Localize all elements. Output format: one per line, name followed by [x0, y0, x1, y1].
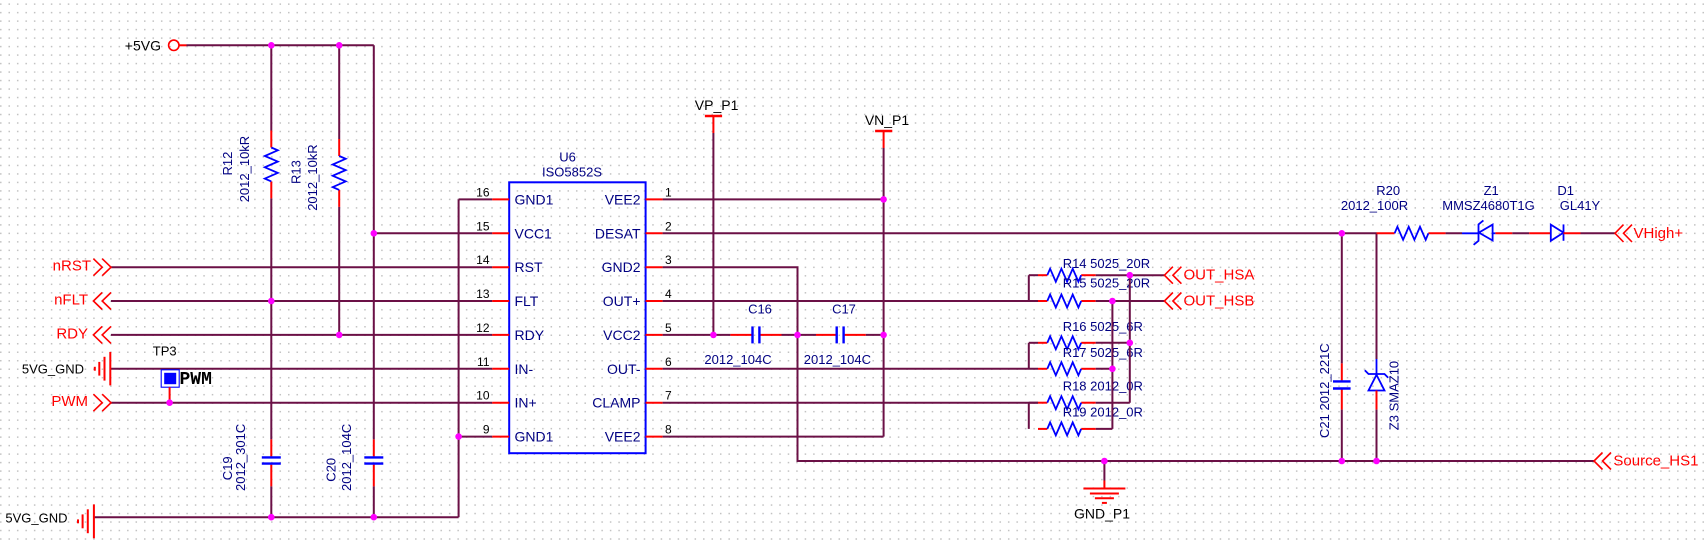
svg-text:2012_301C: 2012_301C	[233, 424, 248, 491]
U6 pin names left	[515, 191, 554, 444]
svg-text:CLAMP: CLAMP	[592, 395, 640, 411]
svg-text:IN+: IN+	[515, 395, 537, 411]
wire R20 to Z1	[1446, 232, 1462, 234]
junction rail C21	[1339, 458, 1346, 465]
testpoint TP3	[153, 344, 212, 403]
svg-text:OUT_HSB: OUT_HSB	[1184, 293, 1255, 310]
svg-text:R16 5025_6R: R16 5025_6R	[1063, 319, 1143, 334]
svg-text:PWM: PWM	[180, 370, 212, 390]
diode D1 GL41Y	[1529, 183, 1600, 241]
junction bottom rail C19	[268, 514, 275, 521]
svg-text:11: 11	[477, 355, 490, 369]
svg-text:9: 9	[483, 423, 490, 437]
wire pin7 CLAMP row	[663, 402, 1038, 404]
wire vertical OUT_HSB net	[1111, 301, 1113, 429]
svg-text:OUT+: OUT+	[603, 293, 641, 309]
svg-text:VEE2: VEE2	[605, 191, 641, 207]
svg-text:C21 2012_221C: C21 2012_221C	[1317, 343, 1332, 438]
svg-text:2012_10kR: 2012_10kR	[305, 144, 320, 211]
port Source_HS1	[1594, 453, 1698, 470]
resistor R19 2012_0R	[1038, 405, 1143, 436]
port nRST	[53, 258, 111, 276]
svg-text:R20: R20	[1376, 183, 1400, 198]
wire nRST to pin14	[111, 266, 492, 268]
resistor R14 5025_20R	[1029, 256, 1150, 282]
capacitor C16 2012_104C	[704, 302, 781, 368]
svg-text:TP3: TP3	[153, 344, 177, 359]
wire pin3 GND2 to ground rail	[663, 267, 1594, 461]
svg-text:GND1: GND1	[515, 429, 554, 445]
svg-text:3: 3	[665, 253, 672, 267]
resistor R13 2012_10kR	[289, 139, 346, 211]
wire pin9 GND1	[459, 436, 493, 438]
power port VP_P1	[695, 97, 739, 133]
port nFLT	[54, 292, 111, 310]
wire pin15 VCC1	[374, 232, 492, 234]
wire R13 column top	[338, 45, 340, 139]
svg-text:6: 6	[665, 355, 672, 369]
wire R12 column top	[270, 45, 272, 130]
svg-text:5VG_GND: 5VG_GND	[5, 510, 67, 525]
svg-text:VN_P1: VN_P1	[865, 112, 910, 128]
svg-text:5VG_GND: 5VG_GND	[22, 362, 84, 377]
wire VP column	[712, 133, 714, 335]
svg-text:Z1: Z1	[1484, 183, 1499, 198]
power port VN_P1	[865, 112, 910, 148]
wire bottom 5VG_GND rail	[94, 516, 459, 518]
svg-text:10: 10	[476, 389, 490, 403]
wire 5VG_GND to pin11	[110, 368, 492, 370]
svg-text:C17: C17	[832, 302, 856, 317]
junction GND2 VCC2 row	[794, 332, 801, 339]
wire OUT_HSA row	[1096, 274, 1165, 276]
svg-text:5: 5	[665, 321, 672, 335]
svg-text:D1: D1	[1557, 183, 1574, 198]
svg-text:MMSZ4680T1G: MMSZ4680T1G	[1442, 198, 1534, 213]
svg-text:DESAT: DESAT	[595, 225, 641, 241]
svg-text:VEE2: VEE2	[605, 429, 641, 445]
junction rail GND_P1	[1101, 458, 1108, 465]
svg-text:C16: C16	[748, 302, 772, 317]
svg-text:OUT-: OUT-	[607, 361, 641, 377]
wire R17 row right	[1096, 368, 1113, 370]
wire pin4 OUT+ row	[663, 300, 1038, 302]
junction OUT_HSA	[1127, 272, 1134, 279]
junction PWM TP3	[166, 399, 173, 406]
svg-text:12: 12	[476, 321, 490, 335]
port RDY	[56, 325, 111, 343]
op-amp U6 ISO5852S body	[509, 150, 645, 454]
svg-text:RST: RST	[515, 259, 543, 275]
wire R19 row right	[1096, 428, 1113, 430]
svg-text:4: 4	[665, 287, 672, 301]
wire R16/R17 left bar	[1028, 343, 1030, 369]
wire D1 to VHigh+ port	[1581, 232, 1616, 234]
junction VP VCC2	[710, 332, 717, 339]
svg-text:2: 2	[665, 219, 672, 233]
svg-text:R15 5025_20R: R15 5025_20R	[1063, 276, 1150, 291]
svg-text:1: 1	[665, 185, 672, 199]
zener Z3 SMAZ10	[1365, 233, 1402, 461]
wire RDY to pin12	[111, 334, 492, 336]
svg-text:VCC1: VCC1	[515, 225, 553, 241]
svg-text:R18 2012_0R: R18 2012_0R	[1063, 378, 1143, 393]
U6 left pin stubs	[492, 199, 509, 436]
port VHigh+	[1615, 225, 1683, 242]
resistor R16 5025_6R	[1029, 319, 1143, 350]
svg-text:OUT_HSA: OUT_HSA	[1184, 267, 1255, 284]
wire pin16 GND1	[459, 198, 493, 200]
ground GND_P1	[1074, 461, 1130, 522]
wire VCC1 column x374	[373, 45, 375, 517]
wire R16 row right	[1096, 342, 1130, 344]
wire pin6 OUT- row	[663, 368, 1038, 370]
resistor R18 2012_0R	[1029, 378, 1143, 409]
junction VCC1 column	[371, 230, 378, 237]
svg-text:U6: U6	[559, 150, 576, 165]
wire PWM to pin10	[111, 402, 492, 404]
power ground 5VG_GND (pin11)	[22, 352, 110, 386]
wire VN column	[883, 148, 885, 437]
junction DESAT C21	[1339, 230, 1346, 237]
svg-text:Z3 SMAZ10: Z3 SMAZ10	[1387, 361, 1402, 430]
svg-text:13: 13	[476, 287, 490, 301]
junction nFLT R12	[268, 298, 275, 305]
junction VN pin1	[880, 196, 887, 203]
junction rail Z3	[1373, 458, 1380, 465]
svg-text:IN-: IN-	[515, 361, 534, 377]
zener Z1 MMSZ4680T1G	[1442, 183, 1534, 245]
svg-text:GND2: GND2	[602, 259, 641, 275]
svg-text:R14 5025_20R: R14 5025_20R	[1063, 256, 1150, 271]
wire R18 row right	[1096, 402, 1130, 404]
port OUT_HSA	[1164, 267, 1254, 284]
capacitor C19 2012_301C	[220, 424, 281, 491]
svg-text:15: 15	[476, 219, 490, 233]
wire pin8 VEE2 to VN column	[663, 436, 884, 438]
svg-text:C20: C20	[323, 458, 338, 482]
svg-text:FLT: FLT	[515, 293, 539, 309]
junction top rail R13	[336, 42, 343, 49]
svg-text:2012_104C: 2012_104C	[339, 424, 354, 491]
port OUT_HSB	[1164, 293, 1254, 310]
capacitor C17 2012_104C	[804, 302, 871, 368]
svg-text:VCC2: VCC2	[603, 327, 641, 343]
svg-text:GND_P1: GND_P1	[1074, 506, 1130, 522]
svg-text:R13: R13	[289, 160, 304, 184]
svg-text:2012_104C: 2012_104C	[704, 352, 771, 367]
wire R14/R15 left bar	[1028, 275, 1030, 301]
junction bottom rail C20	[371, 514, 378, 521]
svg-text:14: 14	[476, 253, 490, 267]
svg-text:GND1: GND1	[515, 191, 554, 207]
wire pin1 VEE2 to VN column	[663, 198, 884, 200]
port PWM	[51, 393, 111, 411]
junction RDY R13	[336, 332, 343, 339]
junction pin9 column	[455, 433, 462, 440]
U6 right pin stubs	[646, 199, 663, 436]
svg-text:R19 2012_0R: R19 2012_0R	[1063, 405, 1143, 420]
U6 pin numbers right	[665, 185, 672, 436]
wire pin5 VCC2 row segments	[663, 334, 884, 336]
wire R18/R19 left bar	[1028, 403, 1030, 429]
U6 pin names right	[592, 191, 641, 444]
wire pin2 DESAT row	[663, 232, 1377, 234]
junction VN VCC2 row	[880, 332, 887, 339]
wire +5VG top rail	[187, 44, 374, 46]
svg-text:16: 16	[476, 185, 490, 199]
capacitor C21 2012_221C	[1317, 233, 1351, 461]
wire GND1 column x458	[458, 199, 460, 517]
svg-text:GL41Y: GL41Y	[1560, 198, 1601, 213]
svg-text:nRST: nRST	[53, 258, 91, 275]
junction top rail R12	[268, 42, 275, 49]
capacitor C20 2012_104C	[323, 424, 383, 491]
power ground 5VG_GND (bottom rail)	[5, 504, 94, 538]
svg-text:R12: R12	[220, 152, 235, 176]
svg-text:2012_104C: 2012_104C	[804, 352, 871, 367]
svg-text:VP_P1: VP_P1	[695, 97, 739, 113]
svg-text:ISO5852S: ISO5852S	[542, 164, 602, 179]
junction R17 net	[1109, 366, 1116, 373]
svg-text:PWM: PWM	[51, 393, 88, 410]
resistor R20 2012_100R	[1341, 183, 1446, 240]
svg-text:nFLT: nFLT	[54, 292, 88, 309]
svg-text:2012_10kR: 2012_10kR	[237, 136, 252, 203]
wire R13 to RDY	[338, 207, 340, 335]
svg-text:VHigh+: VHigh+	[1634, 225, 1684, 242]
power port +5VG	[125, 38, 187, 54]
junction OUT_HSB	[1109, 298, 1116, 305]
wire R12 column bottom / C19 column	[270, 198, 272, 517]
wire OUT_HSB row	[1096, 300, 1165, 302]
svg-text:R17 5025_6R: R17 5025_6R	[1063, 345, 1143, 360]
junction R16 net	[1127, 340, 1134, 347]
resistor R12 2012_10kR	[220, 131, 278, 203]
resistor R15 5025_20R	[1038, 276, 1150, 308]
svg-text:2012_100R: 2012_100R	[1341, 198, 1408, 213]
wire vertical OUT_HSA net	[1129, 275, 1131, 403]
wire Z1 to D1	[1512, 232, 1529, 234]
wire nFLT to pin13	[111, 300, 492, 302]
svg-text:+5VG: +5VG	[125, 38, 161, 54]
svg-text:RDY: RDY	[515, 327, 545, 343]
U6 pin numbers left	[476, 185, 490, 436]
resistor R17 5025_6R	[1038, 345, 1143, 375]
svg-text:7: 7	[665, 389, 672, 403]
svg-text:Source_HS1: Source_HS1	[1613, 453, 1698, 470]
svg-text:8: 8	[665, 423, 672, 437]
svg-text:RDY: RDY	[56, 325, 88, 342]
